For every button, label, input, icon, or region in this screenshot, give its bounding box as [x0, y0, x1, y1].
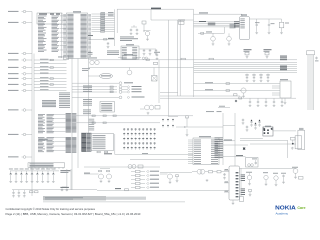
capacitor C6000 bank — [250, 120, 261, 130]
node NETLIST2 — [59, 93, 70, 108]
transistor V2403 — [140, 105, 160, 114]
wire — [234, 113, 236, 166]
op-amp D2800 — [63, 11, 91, 58]
wire — [222, 113, 224, 165]
node NETML — [89, 119, 95, 131]
connector X1401 — [8, 21, 32, 24]
svg-text:Academy: Academy — [276, 212, 289, 216]
wire ROW39 — [88, 35, 115, 40]
capacitor C1310 bank — [249, 98, 284, 107]
node NETBL1 — [60, 170, 70, 173]
wire — [77, 59, 79, 169]
connector X14010 — [8, 133, 32, 136]
svg-text:Confidential Copyright © 2010: Confidential Copyright © 2010 Nokia Only… — [6, 207, 96, 211]
crystal B2201 — [88, 58, 99, 65]
transistor V2201 — [145, 31, 151, 41]
capacitor C1301 — [255, 19, 260, 34]
connector X1407 — [8, 83, 32, 86]
capacitor C1720 — [61, 187, 68, 191]
wire — [223, 144, 248, 146]
connector X3000 — [224, 166, 239, 205]
capacitor C1315 — [315, 57, 319, 62]
wire bus — [38, 137, 76, 153]
capacitor C2805 — [107, 42, 110, 48]
node REVBAR — [43, 196, 146, 200]
node NETLIST3 — [83, 86, 92, 92]
node N2200_LPINS — [88, 51, 119, 55]
resistor R6010 — [249, 190, 252, 197]
resistor R2410 — [97, 151, 112, 154]
wire — [177, 20, 179, 96]
op-amp N2400 — [91, 134, 113, 151]
connector X1406 — [8, 77, 32, 80]
node NETLIST3b — [83, 99, 92, 106]
resistor R2810 — [58, 56, 69, 60]
connector X6000 microphone — [263, 126, 273, 136]
op-amp N2401 — [100, 102, 115, 113]
transistor V3000 — [84, 169, 112, 183]
resistor R2401 — [72, 88, 142, 91]
node B3000 — [160, 169, 208, 181]
wire — [97, 190, 229, 192]
connector X2400 — [81, 133, 91, 152]
crystal G2200 — [118, 54, 141, 59]
connector X1420 — [28, 163, 65, 169]
wire — [250, 18, 282, 20]
wire ROW2 — [72, 122, 160, 124]
capacitor C5500 bank — [162, 119, 174, 128]
node NET1 — [280, 56, 287, 61]
node NETTL — [108, 12, 114, 16]
wire — [240, 131, 296, 139]
resistor R6020 — [299, 177, 304, 180]
wire CAM_CLK — [198, 27, 224, 34]
wire CAM_VCC — [194, 12, 243, 16]
wire — [89, 67, 194, 69]
wire — [31, 12, 33, 197]
wire — [151, 19, 194, 21]
wire bus — [308, 55, 314, 110]
wire — [240, 140, 296, 144]
capacitor C1303 — [279, 19, 289, 34]
wire — [218, 106, 230, 108]
transistor V2202 — [127, 68, 132, 75]
transistor V2302 — [211, 33, 216, 45]
wire — [223, 124, 235, 126]
resistor R1330 — [234, 94, 242, 102]
resistor R5501 — [186, 116, 189, 136]
wire — [160, 96, 296, 98]
capacitor C1306 — [264, 49, 272, 58]
capacitor C6020 — [252, 159, 257, 165]
connector X1402 — [8, 52, 32, 55]
op-amp N2200 — [121, 44, 139, 59]
connector X1403 — [8, 59, 32, 62]
wire — [176, 126, 223, 128]
wire ROW1 — [72, 115, 193, 117]
wire — [223, 155, 246, 156]
capacitor C2420 bank — [123, 128, 155, 149]
resistor R2402 — [72, 91, 142, 94]
transistor V6002 — [292, 167, 298, 179]
wire — [240, 168, 242, 197]
node FOOTER — [6, 207, 141, 216]
wire — [158, 60, 160, 103]
wire bus MEM — [194, 63, 297, 73]
resistor R1310 — [307, 51, 315, 55]
node TABLE_HDR — [37, 13, 62, 24]
capacitor C2201 — [130, 25, 139, 35]
svg-text:Page 2 (11) | BB5, USB, Memo: Page 2 (11) | BB5, USB, Memory, Camera, … — [6, 212, 141, 216]
capacitor C6005 bank — [242, 119, 249, 132]
wire — [160, 92, 178, 94]
wire — [43, 201, 185, 203]
resistor R6001 — [246, 158, 259, 168]
connector X1409 — [8, 109, 32, 112]
node N2200_NETS — [120, 37, 138, 42]
wire — [239, 168, 296, 170]
wire — [33, 54, 35, 168]
wire — [70, 169, 72, 190]
node SW2400 — [152, 68, 158, 82]
wire — [88, 59, 90, 134]
resistor R6011 — [240, 197, 244, 202]
node NOTES — [42, 100, 56, 107]
wire — [115, 134, 193, 159]
capacitor C1700 bank — [9, 169, 59, 183]
op-amp N5500 — [188, 136, 219, 164]
resistor R6002 — [291, 137, 296, 149]
capacitor C1710 bank — [12, 190, 97, 197]
connector X1404 — [8, 66, 32, 69]
connector X6002 — [295, 128, 304, 150]
wire bus CAM — [194, 21, 240, 27]
capacitor C1302 — [268, 19, 275, 34]
resistor R2302 — [178, 20, 185, 25]
wire — [66, 169, 68, 187]
resistor R3010 — [209, 171, 230, 180]
wire bus — [34, 59, 67, 91]
capacitor C2301 — [154, 52, 160, 60]
node SMARTCARD — [72, 96, 145, 99]
node LOGO — [275, 206, 305, 216]
resistor R2801 — [92, 12, 115, 32]
wire — [219, 140, 235, 141]
node NET2 — [280, 66, 287, 71]
transistor V6001 — [263, 172, 278, 186]
wire CLK26 — [89, 58, 298, 60]
connector X1300 — [240, 14, 250, 39]
node CLK_LBL — [82, 68, 90, 71]
wire — [115, 9, 118, 46]
node NETMID — [206, 110, 222, 113]
capacitor C1305 — [244, 49, 252, 58]
svg-text:Care: Care — [297, 206, 305, 210]
wire — [71, 59, 73, 191]
wire bus — [38, 13, 67, 58]
node XMARK — [243, 148, 245, 150]
transistor V1300 — [240, 88, 246, 98]
resistor R3000 bank — [131, 170, 159, 188]
transistor V2303 — [227, 33, 232, 45]
connector X1408 — [8, 89, 32, 92]
resistor R2430 — [84, 165, 160, 169]
resistor R2400 — [72, 85, 142, 88]
transistor V6000 — [246, 172, 252, 185]
capacitor C2202 — [139, 49, 157, 55]
connector X14011 — [8, 156, 32, 159]
node CAM_TOP — [117, 8, 194, 10]
node X1300_NETS — [230, 24, 236, 28]
wire — [150, 9, 152, 20]
wire — [287, 140, 289, 158]
crystal B2200 — [88, 73, 113, 78]
transistor V3001 — [160, 174, 179, 184]
node NETLIST3c — [83, 110, 91, 115]
node MMC1 — [72, 82, 133, 85]
wire bus — [38, 113, 76, 133]
node X3000_NETS — [241, 175, 246, 195]
node NETR1 — [215, 138, 224, 159]
capacitor C6010 — [281, 173, 286, 184]
wire — [179, 20, 181, 96]
wire — [193, 9, 195, 97]
op-amp N1300 — [194, 79, 292, 104]
connector X1405 — [8, 73, 32, 76]
resistor R2203 — [142, 57, 157, 65]
wire — [168, 20, 178, 117]
resistor R2305 — [142, 21, 146, 32]
capacitor C1320 bank — [245, 74, 270, 82]
node NETBL2 — [60, 187, 128, 191]
connector X1400 — [8, 10, 32, 13]
